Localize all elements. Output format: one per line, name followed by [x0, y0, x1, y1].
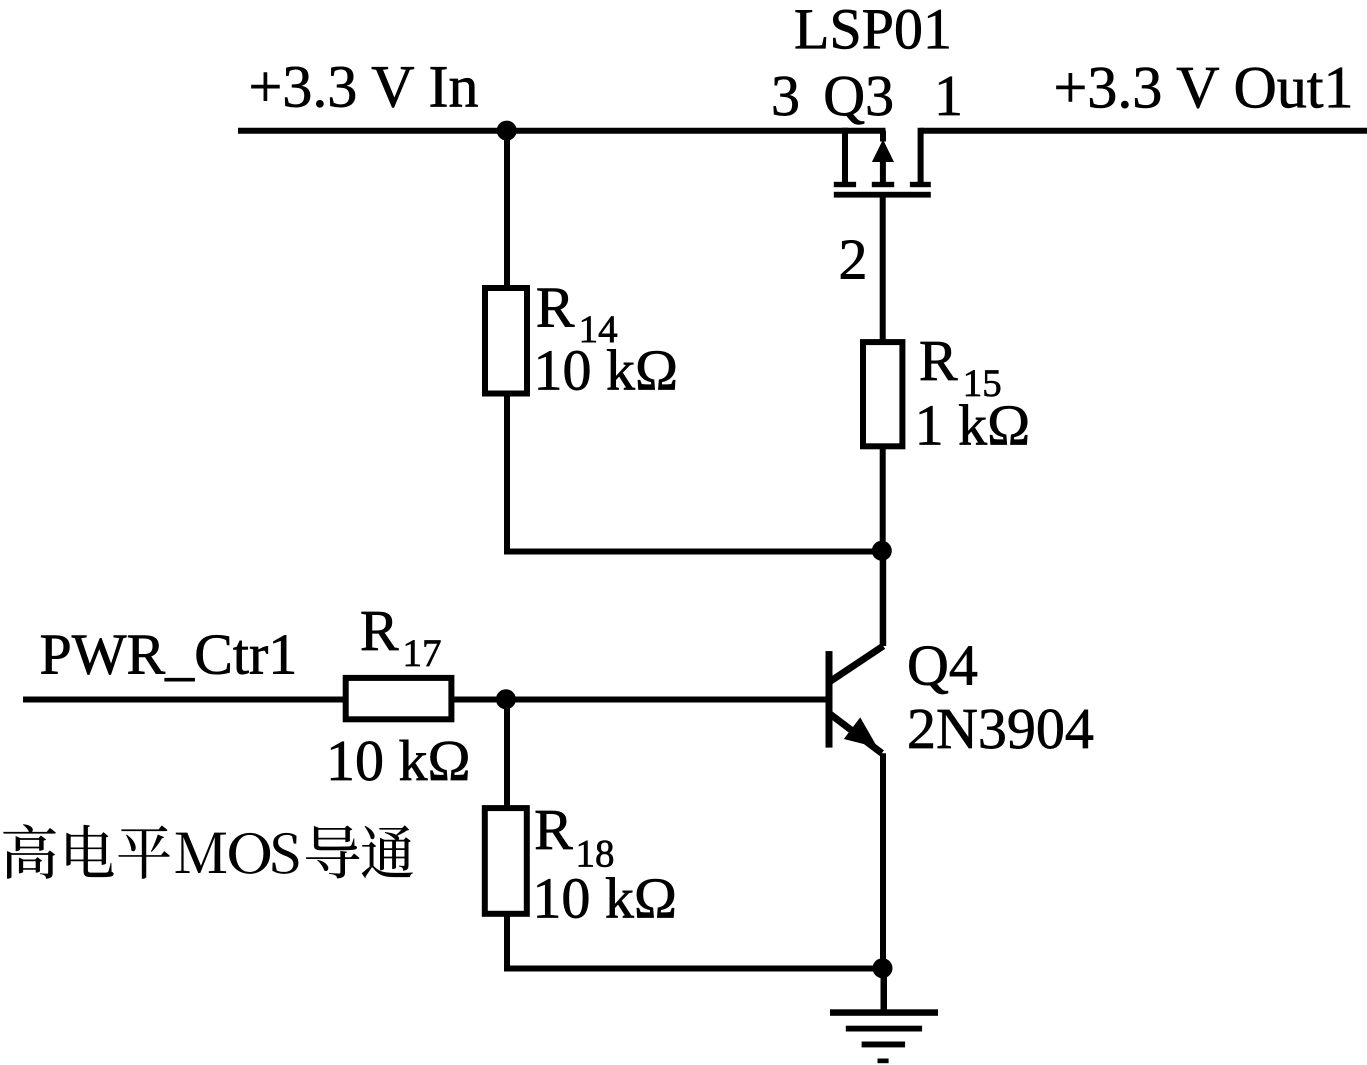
wire gate pin 2 down to R15: [880, 198, 886, 343]
resistor R17: [346, 678, 452, 719]
junction dot VIN node: [497, 121, 517, 141]
label Q3: [826, 77, 892, 125]
net label +3.3 V Out1: [1057, 68, 1350, 109]
annotation text: high level turns MOS on: [3, 824, 413, 879]
label R15: [921, 342, 958, 380]
junction dot emitter ground node: [873, 958, 893, 978]
wire R15 bottom to collector: [880, 448, 886, 646]
resistor R14: [485, 288, 527, 394]
junction dot base node: [496, 689, 516, 709]
wire VIN down to R14: [504, 131, 510, 288]
wire emitter down to ground node: [880, 753, 886, 968]
pin label 3: [774, 77, 798, 116]
resistor R15: [863, 342, 902, 446]
pin label 2: [841, 240, 864, 278]
wire +3.3 V In rail: [238, 128, 886, 134]
label R14 value 10 kOhm: [539, 349, 676, 390]
label R14: [538, 289, 575, 327]
label R18 value 10 kOhm: [538, 877, 675, 918]
label R17 value 10 kOhm: [331, 740, 468, 781]
MOSFET Q3: [834, 128, 931, 198]
pin label 1: [939, 77, 959, 115]
net label +3.3 V In: [252, 67, 478, 108]
label Q4: [909, 646, 977, 694]
resistor R18: [485, 808, 527, 914]
label R15 value 1 kOhm: [920, 404, 1027, 444]
wire collector up to gate node: [880, 551, 886, 646]
label LSP01: [796, 10, 949, 49]
net label PWR_Ctr1: [41, 635, 294, 681]
junction dot gate node: [872, 541, 892, 561]
wire +3.3 V Out1 rail: [921, 128, 1367, 134]
label R18: [536, 811, 573, 849]
label 2N3904: [910, 709, 1094, 748]
wire R18 bottom to emitter node: [507, 914, 878, 969]
transistor Q4: [826, 646, 884, 753]
wire base node down to R18: [504, 700, 510, 809]
wire R14 bottom to gate node: [507, 394, 879, 552]
wire R17 to Q4 base: [452, 697, 826, 703]
ground: [830, 969, 938, 1064]
wire PWR_Ctr1 to R17: [23, 697, 345, 703]
label R17: [362, 612, 399, 650]
